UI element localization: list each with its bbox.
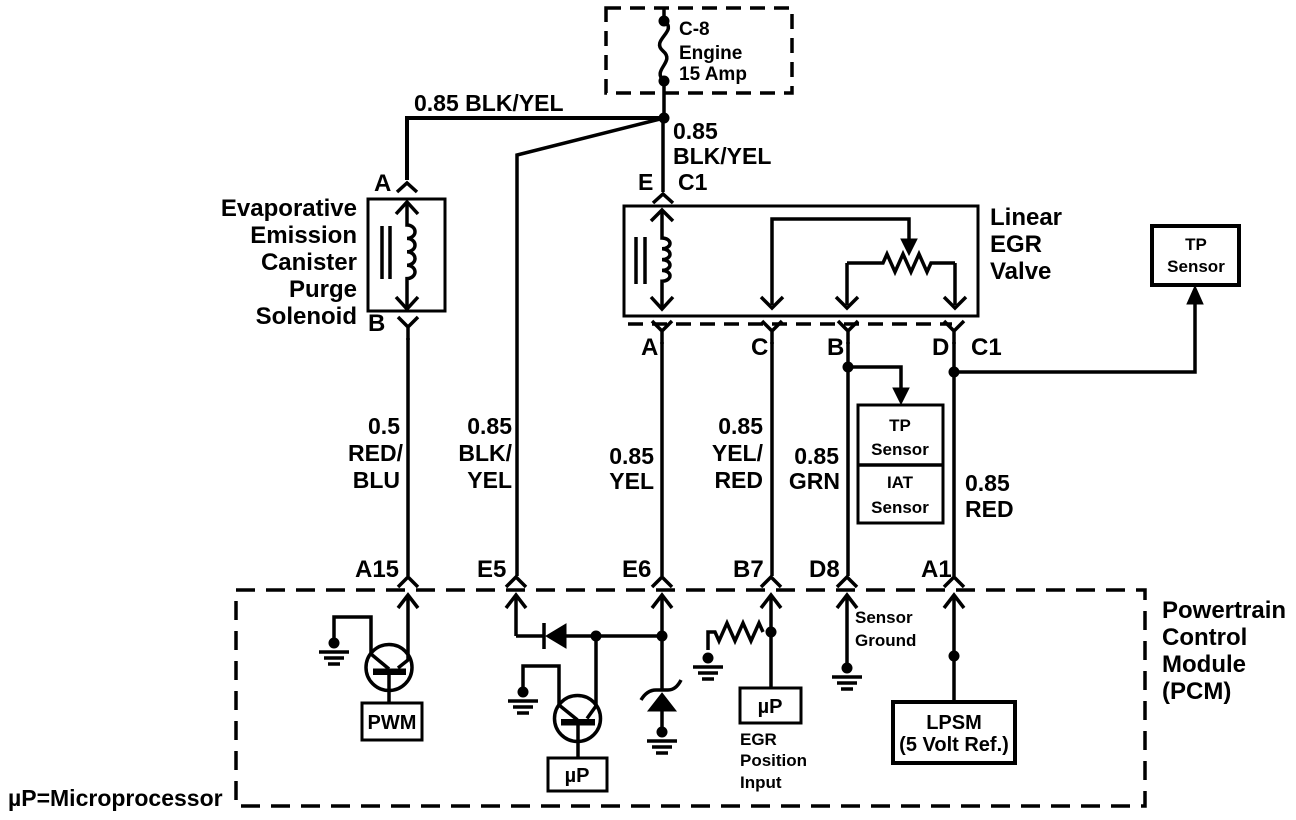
wire fuse top stub: [662, 8, 666, 20]
svg-text:A1: A1: [921, 556, 952, 583]
svg-text:TP: TP: [1185, 235, 1207, 254]
svg-text:0.85: 0.85: [467, 413, 512, 439]
connector chevron E6: [652, 577, 672, 587]
connector Y pin C: [762, 321, 782, 344]
svg-text:Purge: Purge: [289, 276, 357, 303]
svg-text:Sensor: Sensor: [1167, 257, 1225, 276]
connector chevron A1: [944, 577, 964, 587]
svg-text:YEL: YEL: [467, 467, 512, 493]
PCM dashed box: [236, 590, 1145, 806]
svg-text:µP: µP: [565, 765, 590, 787]
svg-text:0.85: 0.85: [965, 470, 1010, 496]
ground (Q2 emitter): [508, 687, 538, 714]
wire EGR D to A1: [952, 342, 956, 576]
svg-text:Solenoid: Solenoid: [256, 303, 357, 330]
svg-text:Sensor: Sensor: [871, 498, 929, 517]
label Powertrain Control Module (PCM): [1162, 597, 1286, 705]
svg-text:0.5: 0.5: [368, 413, 400, 439]
svg-text:RED: RED: [965, 496, 1014, 522]
svg-text:B: B: [368, 310, 385, 337]
node junction below fuse: [659, 113, 670, 124]
uP box (mid): [548, 758, 607, 791]
uP box (B7 EGR position): [740, 688, 801, 723]
svg-text:Evaporative: Evaporative: [221, 195, 357, 222]
svg-text:Module: Module: [1162, 651, 1246, 678]
zener diode Z1: [641, 680, 681, 730]
label Sensor Ground: [855, 608, 916, 650]
svg-text:E: E: [638, 169, 653, 195]
svg-text:PWM: PWM: [368, 712, 417, 734]
svg-text:Sensor: Sensor: [855, 608, 913, 627]
svg-text:RED/: RED/: [348, 440, 404, 466]
svg-text:Powertrain: Powertrain: [1162, 597, 1286, 624]
node diode-collector junction: [591, 631, 602, 642]
svg-text:BLK/YEL: BLK/YEL: [673, 143, 771, 169]
svg-text:GRN: GRN: [789, 468, 840, 494]
svg-text:(PCM): (PCM): [1162, 678, 1231, 705]
svg-text:(5 Volt Ref.): (5 Volt Ref.): [899, 734, 1009, 756]
wire EGR A to E6: [660, 342, 664, 576]
svg-text:B: B: [827, 334, 844, 361]
PWM box: [362, 703, 422, 740]
svg-text:0.85: 0.85: [609, 443, 654, 469]
svg-text:B7: B7: [733, 556, 764, 583]
connector Y pin B: [838, 321, 858, 344]
EGR coil with arrows: [651, 210, 673, 309]
connector chevron E5: [506, 577, 526, 587]
svg-text:0.85: 0.85: [794, 443, 839, 469]
wire down to EGR pin E: [661, 118, 665, 192]
svg-text:Valve: Valve: [990, 258, 1051, 285]
wire EGR C to B7: [770, 342, 774, 576]
svg-text:YEL/: YEL/: [712, 440, 764, 466]
solenoid core bars: [382, 226, 390, 279]
svg-text:EGR: EGR: [740, 730, 777, 749]
connector chevron A15: [398, 577, 418, 587]
wire B branch to TP/IAT: [848, 367, 901, 390]
TP Sensor box (top right): [1152, 226, 1239, 285]
svg-text:Position: Position: [740, 751, 807, 770]
svg-text:A15: A15: [355, 556, 399, 583]
wire B to A15: [406, 338, 410, 576]
node E6 junction: [657, 631, 668, 642]
svg-text:D: D: [932, 334, 949, 361]
label 0.85 YEL/ RED: [712, 413, 764, 493]
connector chevron A (solenoid): [397, 183, 417, 192]
label C-8 Engine 15 Amp: [679, 19, 747, 85]
diode D1: [544, 623, 566, 649]
solenoid box: [368, 199, 445, 311]
solenoid coil with arrows: [396, 202, 418, 309]
potentiometer right lead with arrow: [944, 263, 966, 308]
label 0.85 YEL: [609, 443, 654, 494]
EGR core bars: [636, 237, 645, 284]
TP Sensor / IAT Sensor box: [858, 405, 943, 523]
node on wire D: [949, 367, 960, 378]
svg-text:µP=Microprocessor: µP=Microprocessor: [8, 785, 223, 811]
wire Q2 collector to junction: [594, 636, 598, 707]
svg-text:EGR: EGR: [990, 231, 1042, 258]
transistor Q1 (PWM driver): [366, 645, 412, 704]
svg-text:µP: µP: [758, 696, 783, 718]
wire horizontal BLK/YEL to solenoid: [407, 118, 664, 180]
wire EGR B to D8: [846, 342, 850, 576]
arrow into TP/IAT box: [893, 388, 909, 404]
node on wire B: [843, 362, 854, 373]
label 0.85 GRN: [789, 443, 840, 494]
pin arrow E5: [506, 595, 526, 636]
pin arrow B7: [761, 595, 781, 688]
svg-text:Linear: Linear: [990, 204, 1062, 231]
pin arrow A1: [944, 595, 964, 702]
svg-text:LPSM: LPSM: [926, 712, 982, 734]
wire Q2 emitter to ground: [523, 666, 559, 707]
svg-text:RED: RED: [714, 467, 763, 493]
arrow C down (inside box): [761, 297, 783, 308]
svg-text:0.85 BLK/YEL: 0.85 BLK/YEL: [414, 90, 564, 116]
svg-text:Sensor: Sensor: [871, 440, 929, 459]
connector chevron D8: [837, 577, 857, 587]
node A1 junction: [949, 651, 960, 662]
svg-text:E6: E6: [622, 556, 651, 583]
connector Y pin A: [652, 321, 672, 344]
svg-text:TP: TP: [889, 416, 911, 435]
svg-text:0.85: 0.85: [673, 118, 718, 144]
transistor Q2 (uP driver): [555, 696, 601, 759]
ground (R1): [693, 653, 723, 680]
wire C pickup (top horizontal to wiper): [772, 219, 909, 305]
pin arrow E6: [652, 595, 672, 689]
pin arrow D8: [837, 595, 857, 666]
wire diagonal BLK/YEL to E5 column: [517, 118, 664, 576]
svg-text:Input: Input: [740, 773, 782, 792]
arrow into TP Sensor: [1187, 286, 1203, 304]
label Linear EGR Valve: [990, 204, 1062, 285]
svg-text:BLK/: BLK/: [458, 440, 512, 466]
ground (zener): [647, 727, 677, 754]
wire E5 elbow to diode: [516, 634, 544, 638]
svg-text:Ground: Ground: [855, 631, 916, 650]
svg-text:YEL: YEL: [609, 468, 654, 494]
svg-text:D8: D8: [809, 556, 840, 583]
connector Y pin D: [944, 321, 964, 344]
fuse block C-8 dashed box: [606, 8, 792, 93]
svg-text:A: A: [374, 170, 391, 197]
svg-text:BLU: BLU: [353, 467, 400, 493]
svg-text:A: A: [641, 334, 658, 361]
connector chevron B7: [761, 577, 781, 587]
wire diode to E6 column: [566, 634, 662, 638]
EGR valve box: [624, 206, 978, 316]
svg-text:C1: C1: [678, 169, 708, 195]
pin arrow A15: [398, 595, 418, 661]
svg-text:Emission: Emission: [250, 222, 357, 249]
wire from fuse to junction: [662, 81, 666, 118]
svg-text:IAT: IAT: [887, 473, 914, 492]
label Evaporative Emission Canister Purge Solenoid: [221, 195, 357, 330]
svg-text:C-8: C-8: [679, 19, 710, 40]
label 0.5 RED/ BLU: [348, 413, 404, 493]
svg-text:C1: C1: [971, 334, 1002, 361]
svg-text:C: C: [751, 334, 768, 361]
label EGR Position Input: [740, 730, 807, 792]
label 0.85 RED: [965, 470, 1014, 522]
svg-text:15 Amp: 15 Amp: [679, 64, 747, 85]
svg-text:0.85: 0.85: [718, 413, 763, 439]
svg-text:Control: Control: [1162, 624, 1247, 651]
potentiometer left lead with arrow: [836, 263, 858, 308]
ground (Q1 emitter): [319, 638, 349, 665]
LPSM box: [893, 702, 1015, 763]
label 0.85 BLK/YEL C1 stack: [673, 118, 771, 195]
svg-text:Engine: Engine: [679, 43, 742, 64]
potentiometer resistor: [847, 254, 955, 272]
resistor R1 (B7 pull): [708, 623, 763, 650]
label 0.85 BLK/ YEL: [458, 413, 512, 493]
node B7 junction: [766, 627, 777, 638]
wire D branch to TP Sensor: [954, 302, 1195, 372]
potentiometer wiper arrow: [901, 239, 917, 255]
connector Y B (solenoid): [398, 317, 418, 340]
svg-text:Canister: Canister: [261, 249, 357, 276]
connector chevron E: [653, 194, 673, 203]
ground (D8 sensor ground): [832, 663, 862, 690]
connector C1 dashed line: [628, 322, 952, 326]
fuse C-8 element: [659, 16, 670, 87]
svg-text:E5: E5: [477, 556, 506, 583]
wire Q1 emitter to ground: [334, 617, 371, 656]
